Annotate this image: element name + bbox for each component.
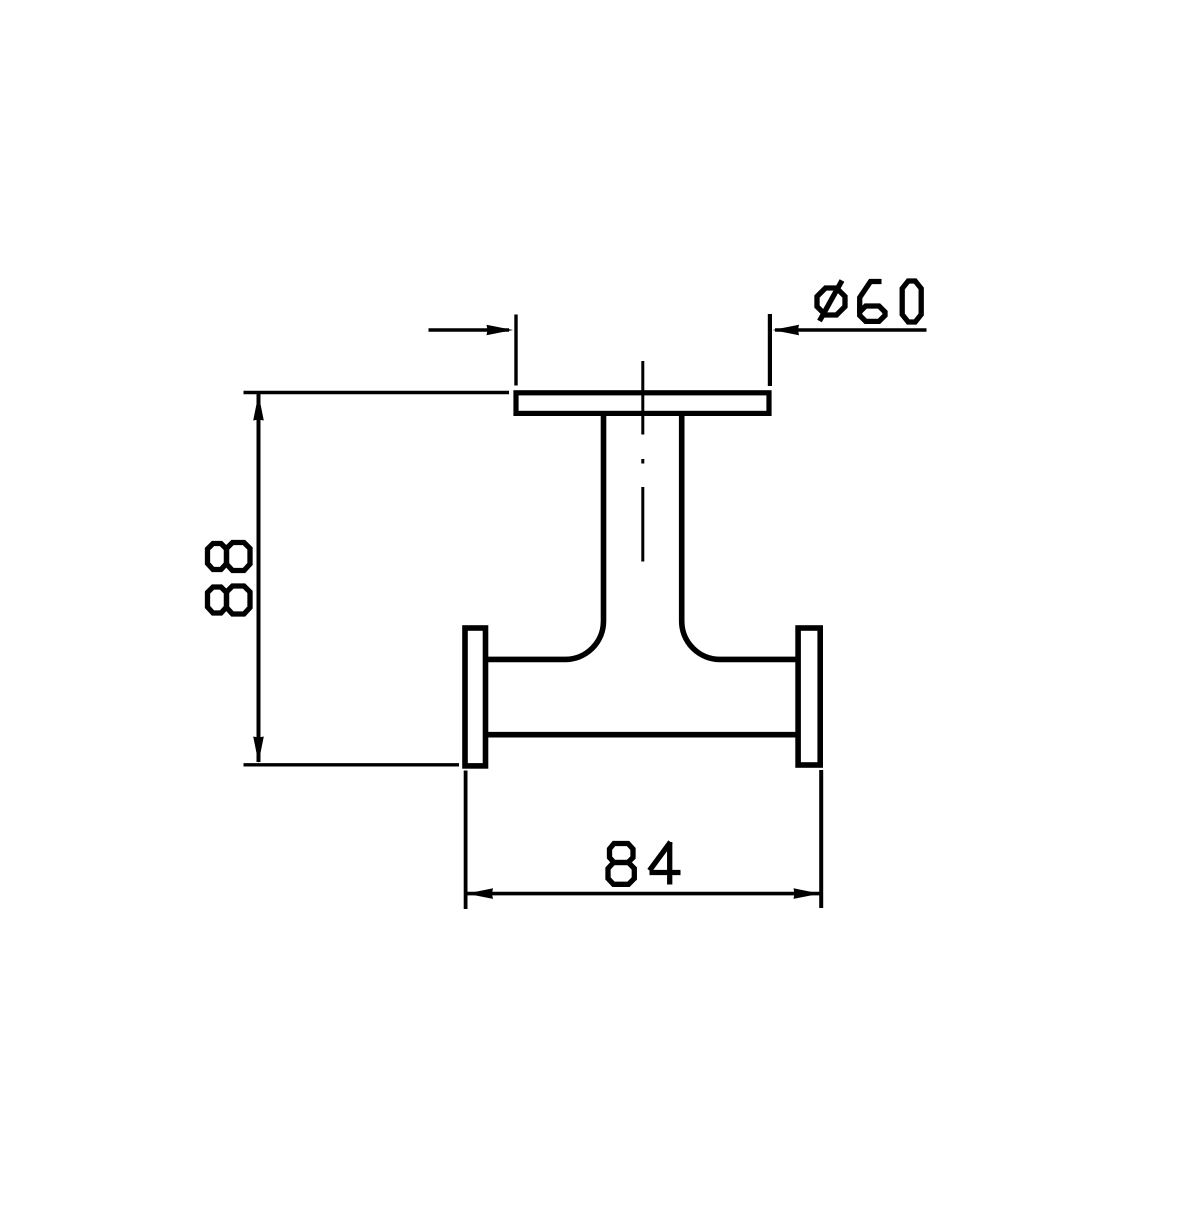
dimension Ø60: left dimension line bbox=[429, 328, 510, 332]
dimension Ø60: right arrowhead bbox=[773, 325, 800, 336]
dimension 84: dimension line bbox=[466, 892, 821, 896]
stem right outline with fillet bbox=[682, 414, 798, 659]
vertical centerline (dash-dot) bbox=[641, 361, 644, 562]
dimension 88: top extension line bbox=[244, 391, 510, 394]
dimension Ø60: right extension line bbox=[768, 314, 772, 386]
dimension 88: vertical dimension line bbox=[257, 394, 261, 762]
dimension 88: text "88" (rotated 90° CCW) bbox=[208, 543, 251, 615]
dimension 88: bottom arrowhead bbox=[253, 737, 264, 764]
dimension Ø60: right dimension line (leader under text) bbox=[775, 328, 927, 332]
dimension 84: right extension line bbox=[819, 770, 823, 908]
dimension Ø60: left arrowhead bbox=[487, 325, 514, 336]
wall plate (top mounting bar outline) bbox=[516, 393, 769, 414]
dimension 88: bottom extension line bbox=[244, 763, 460, 766]
dimension 84: left extension line bbox=[464, 771, 468, 910]
hook bar bottom edge bbox=[486, 732, 798, 738]
stem left outline with fillet bbox=[486, 414, 604, 659]
right end flange bbox=[798, 628, 820, 765]
dimension 84: text "84" bbox=[608, 842, 681, 885]
dimension 84: left arrowhead bbox=[467, 888, 494, 899]
dimension 88: top arrowhead bbox=[253, 394, 264, 421]
dimension Ø60: text "Ø60" bbox=[817, 281, 921, 323]
left end flange bbox=[465, 628, 486, 766]
dimension 84: right arrowhead bbox=[794, 888, 821, 899]
dimension Ø60: left extension line bbox=[514, 315, 517, 386]
